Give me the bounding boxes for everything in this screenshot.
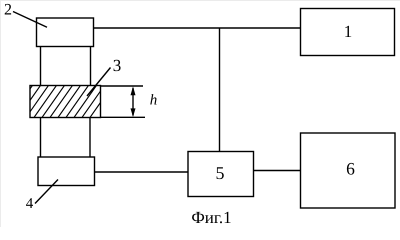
specimen 3 (hatched block) xyxy=(2,86,112,118)
svg-text:1: 1 xyxy=(344,22,353,41)
dimension arrow h (double headed) xyxy=(131,86,136,117)
wire block4 to block5 xyxy=(95,171,189,173)
svg-text:5: 5 xyxy=(216,163,225,183)
block 2 (sensor box, top left) xyxy=(37,18,94,47)
wire junction drop to block 5 xyxy=(219,28,221,152)
block 5 (rect, bottom middle) xyxy=(188,152,254,197)
pillar between block 2 and specimen 3 xyxy=(41,47,91,86)
svg-text:3: 3 xyxy=(113,56,122,75)
svg-text:Фиг.1: Фиг.1 xyxy=(191,208,231,227)
wire block5 to block6 xyxy=(254,170,301,172)
leader line label 3 xyxy=(87,68,111,97)
block 1 (rect, top right) xyxy=(301,9,395,56)
wire block2 to block1 xyxy=(94,27,301,29)
dimension extension line top xyxy=(101,85,144,87)
pillar between specimen 3 and block 4 xyxy=(41,118,91,158)
svg-text:2: 2 xyxy=(4,2,12,19)
dimension extension line bottom xyxy=(101,116,146,118)
svg-text:6: 6 xyxy=(346,159,355,179)
block 6 (rect, bottom right) xyxy=(301,133,396,208)
svg-text:4: 4 xyxy=(26,196,34,212)
svg-text:h: h xyxy=(150,93,158,109)
leader line label 4 xyxy=(35,180,58,204)
leader line label 2 xyxy=(13,12,47,28)
block 4 (lower sensor box) xyxy=(38,157,95,186)
